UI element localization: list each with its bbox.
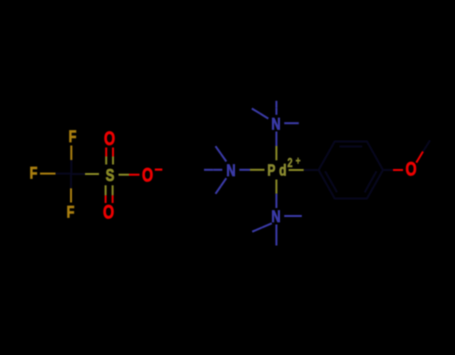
bottom N methyl down-left (C half) xyxy=(252,228,262,232)
top N methyl right (C half) xyxy=(292,122,299,124)
svg-text:F: F xyxy=(67,203,75,222)
double bond S=O top line2 xyxy=(112,148,114,157)
double bond S=O bottom line2 xyxy=(112,185,114,195)
bottom N methyl down (N half) xyxy=(275,225,277,236)
svg-text:O: O xyxy=(405,159,416,180)
svg-text:S: S xyxy=(106,166,115,185)
bottom N methyl right (N half) xyxy=(284,215,293,217)
svg-text:O: O xyxy=(103,201,114,222)
bottom N methyl down (C half) xyxy=(275,235,277,246)
bond C-F left (C half) xyxy=(56,173,72,175)
svg-text:N: N xyxy=(226,161,235,180)
top N methyl right (N half) xyxy=(284,122,291,124)
top N methyl up (N half) xyxy=(275,108,277,115)
minus charge on O xyxy=(155,169,163,171)
svg-text:O: O xyxy=(104,128,115,149)
bond C-S (C half) xyxy=(71,173,85,175)
left N methyl left (C half) xyxy=(204,169,213,171)
svg-text:P: P xyxy=(267,161,275,179)
bond N bottom - Pd (N half) xyxy=(275,194,277,208)
bond O-CH3 (C half) xyxy=(423,140,430,151)
bond C-F left (F half) xyxy=(40,173,56,175)
double bond S=O bottom line1 xyxy=(105,185,107,195)
bond Pd - C ipso (C half) xyxy=(304,169,319,171)
svg-text:F: F xyxy=(30,164,38,183)
bottom N methyl down-left (N half) xyxy=(262,223,272,227)
bond N bottom - Pd (Pd half) xyxy=(275,180,277,194)
bond C-F bottom (F half) xyxy=(70,188,72,202)
bond N left - Pd (N half) xyxy=(239,169,250,171)
bond N left - Pd (Pd half) xyxy=(250,169,265,171)
bond S-O right (O half) xyxy=(129,174,140,176)
top N methyl up-left (C half) xyxy=(252,109,260,114)
bond N top - Pd (N half) xyxy=(275,132,277,147)
svg-text:F: F xyxy=(69,127,77,146)
bond O-CH3 (O half) xyxy=(416,152,423,163)
bond Pd - C ipso (Pd half) xyxy=(289,169,304,171)
double bond S=O top line1 xyxy=(105,148,107,157)
ring double bond right-bottom inner xyxy=(365,171,377,192)
ring double bond left-bottom inner xyxy=(325,171,337,192)
svg-text:O: O xyxy=(142,165,153,186)
bond C-O methoxy (O half) xyxy=(393,169,403,171)
ring double bond top inner xyxy=(340,146,363,148)
left N methyl left (N half) xyxy=(213,169,222,171)
bond S-O right (S half) xyxy=(119,174,130,176)
svg-text:+: + xyxy=(296,155,301,167)
bond C-F top (F half) xyxy=(70,146,72,161)
bond C-O methoxy (C half) xyxy=(383,169,393,171)
top N methyl up (C half) xyxy=(275,101,277,108)
svg-text:2: 2 xyxy=(287,157,292,171)
left N methyl down (C half) xyxy=(216,186,221,194)
svg-text:N: N xyxy=(271,207,280,226)
svg-text:d: d xyxy=(279,161,286,179)
bottom N methyl right (C half) xyxy=(293,215,302,217)
bond N top - Pd (Pd half) xyxy=(275,146,277,160)
left N methyl down (N half) xyxy=(221,178,226,186)
top N methyl up-left (N half) xyxy=(260,113,269,118)
bond C-S (S half) xyxy=(85,173,99,175)
left N methyl up (C half) xyxy=(216,146,221,154)
bond C-F top (C half) xyxy=(70,160,72,174)
svg-text:N: N xyxy=(271,115,280,134)
benzene ring xyxy=(319,142,383,199)
bond C-F bottom (C half) xyxy=(70,174,72,188)
left N methyl up (N half) xyxy=(221,154,226,162)
